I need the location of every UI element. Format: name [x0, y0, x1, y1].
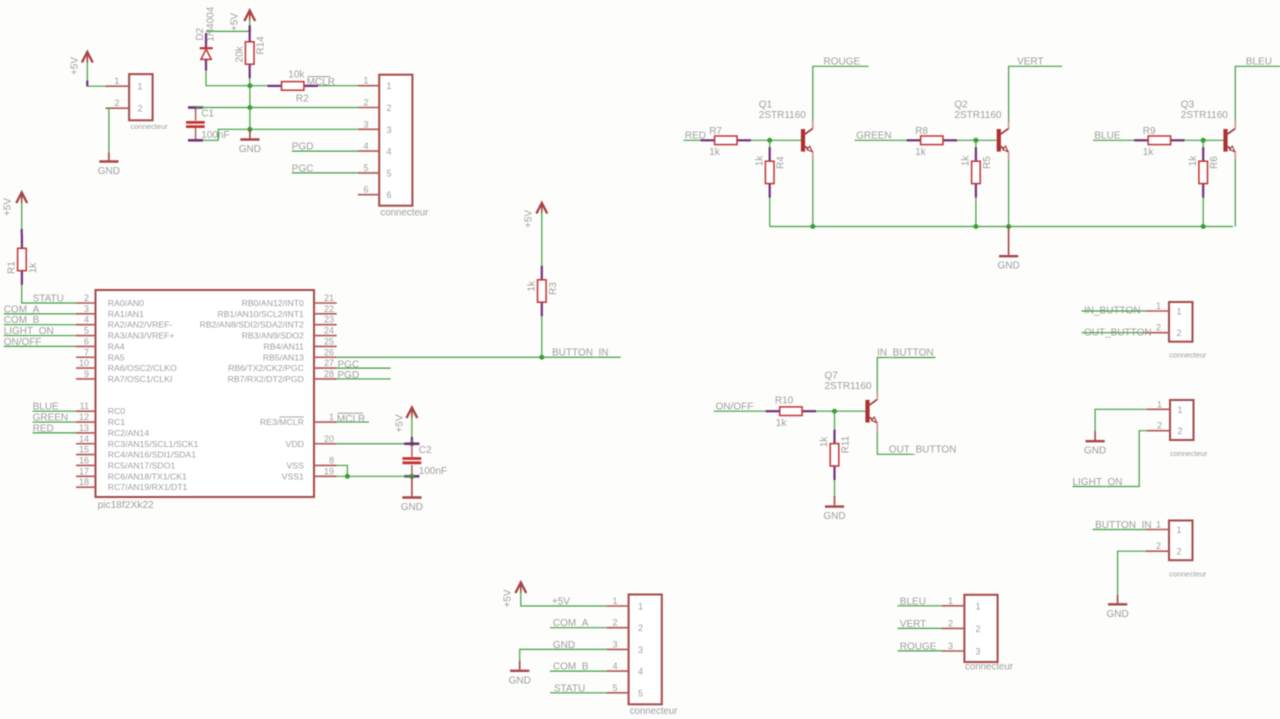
node VERT at SV6 net label: [900, 619, 927, 630]
node MCLR at pin 1 net label: [337, 413, 365, 425]
svg-text:5: 5: [84, 326, 89, 336]
svg-text:+5V: +5V: [395, 414, 406, 432]
junction GND / pin3 net: [247, 127, 252, 132]
svg-text:BLEU: BLEU: [1246, 56, 1272, 67]
resistor R1 (1k): [7, 234, 39, 284]
svg-text:R14: R14: [256, 36, 267, 55]
connector SV-ICSP 6-pin (6-pin "connecteur"): [358, 75, 413, 206]
wire Q2 collector up to net VERT: [1009, 66, 1063, 121]
svg-text:RA4: RA4: [108, 341, 125, 351]
wire net RED into R7: [683, 139, 714, 141]
svg-text:RC5/AN17/SDO1: RC5/AN17/SDO1: [108, 460, 176, 470]
wire net MCLR stub at pin 1: [337, 421, 369, 423]
svg-text:R3: R3: [548, 282, 559, 295]
node RED at R7 net label: [685, 131, 706, 142]
wire R11 column to GND: [834, 411, 836, 496]
U1 left pins RA0-RA7 (pins 2,3,4,5,6,7,10,9): [76, 293, 177, 384]
svg-text:7: 7: [84, 347, 89, 357]
node GREEN at R8 net label: [856, 131, 892, 142]
ground G6 (SV3): [1084, 441, 1106, 457]
node BLUE at R9 net label: [1094, 131, 1120, 142]
wire net COM_B to SV5 pin 4: [550, 670, 607, 672]
svg-text:2: 2: [1177, 547, 1182, 557]
svg-text:C1: C1: [201, 109, 214, 120]
svg-text:+5V: +5V: [552, 596, 570, 607]
svg-text:1: 1: [1157, 399, 1162, 409]
junction Q2 base / R5: [973, 138, 978, 143]
wire net ROUGE to SV6 pin 3: [898, 650, 943, 652]
svg-text:GND: GND: [1106, 609, 1128, 620]
node IN_BUTTON at Q7 net label: [877, 347, 934, 358]
node LIGHT_ON at SV3 net label: [1073, 477, 1123, 488]
svg-text:GND: GND: [401, 502, 423, 513]
wire net IN_BUTTON to SV2 pin 1: [1082, 310, 1147, 312]
svg-text:RB5/AN13: RB5/AN13: [263, 352, 304, 362]
svg-text:RB6/TX2/CK2/PGC: RB6/TX2/CK2/PGC: [228, 363, 304, 373]
svg-text:1: 1: [329, 412, 334, 422]
svg-text:MCLR: MCLR: [337, 414, 365, 425]
node OUT_BUTTON at Q7 net label: [889, 444, 957, 455]
svg-text:RC4/AN16/SDI1/SDA1: RC4/AN16/SDI1/SDA1: [108, 450, 197, 460]
connector SV4 (2-pin "connecteur"): [1146, 521, 1193, 561]
svg-text:R1: R1: [7, 261, 18, 274]
ground G5 (R11): [823, 507, 845, 522]
svg-text:19: 19: [324, 466, 334, 476]
svg-text:R5: R5: [982, 156, 993, 169]
svg-text:GND: GND: [1084, 446, 1106, 457]
svg-text:connecteur: connecteur: [1170, 449, 1208, 458]
svg-text:5: 5: [612, 683, 617, 693]
svg-text:R2: R2: [296, 94, 309, 105]
U1 right pins RB0-RB7 (pins 21-28): [200, 293, 337, 384]
wire R4 column to rail: [769, 140, 771, 226]
junction Q7 base / R11: [832, 409, 837, 414]
svg-text:RC1: RC1: [108, 417, 126, 427]
ground lead G7: [1117, 595, 1119, 603]
wire SV3 pin 1 to GND: [1095, 409, 1147, 431]
svg-text:1k: 1k: [28, 262, 39, 274]
svg-text:2STR1160: 2STR1160: [954, 110, 1002, 121]
ground lead G3: [411, 476, 413, 496]
+5V supply symbol P3 (above R1): [2, 193, 27, 217]
wire net R8 to Q2 base: [957, 139, 997, 141]
svg-text:LIGHT_ON: LIGHT_ON: [1073, 477, 1123, 488]
svg-text:connecteur: connecteur: [630, 706, 679, 717]
node MCLR near R2 net label: [307, 77, 335, 89]
wire Q7 collector to net IN_BUTTON: [877, 358, 935, 393]
svg-text:2STR1160: 2STR1160: [759, 110, 807, 121]
wire net VDD row: [337, 443, 412, 445]
ground lead G8: [519, 661, 521, 670]
resistor R8 (1k): [907, 126, 957, 158]
wire net PGC to connector pin 5: [292, 172, 358, 174]
transistor Q1 (2STR1160) NPN: [759, 100, 813, 160]
svg-text:1: 1: [114, 76, 119, 86]
U1 right pins RE3/MCLR, VDD, VSS, VSS1: [260, 412, 337, 481]
svg-text:Q2: Q2: [954, 100, 968, 111]
svg-text:2: 2: [948, 618, 953, 628]
resistor R3 (1k): [527, 266, 559, 316]
svg-text:1: 1: [976, 601, 981, 611]
node STATU at U1 net label: [33, 294, 64, 305]
junction rail / R6: [1201, 224, 1206, 229]
svg-text:RB3/AN9/SDO2: RB3/AN9/SDO2: [242, 331, 304, 341]
svg-text:R10: R10: [775, 396, 794, 407]
svg-text:2: 2: [1178, 426, 1183, 436]
wire Q3 emitter down to rail: [1234, 160, 1236, 227]
svg-text:16: 16: [79, 455, 89, 465]
wire net R9 to Q3 base: [1185, 139, 1224, 141]
svg-text:2: 2: [1157, 421, 1162, 431]
svg-text:1k: 1k: [1143, 147, 1155, 158]
wire net ON/OFF into R10: [714, 410, 779, 412]
connector SV3 pin numbers: [1157, 399, 1208, 458]
+5V supply symbol P1 (+5V into SV1): [70, 52, 93, 75]
connector SV6 pin numbers: [948, 596, 1014, 673]
wire Q1 emitter down to rail: [812, 160, 814, 227]
svg-text:22: 22: [324, 304, 334, 314]
node LIGHT_ON at U1 net label: [4, 326, 54, 337]
resistor R5 (1k): [961, 147, 993, 197]
wire net PGD to connector pin 4: [292, 150, 358, 152]
svg-text:connecteur: connecteur: [965, 662, 1014, 673]
svg-text:17: 17: [79, 466, 89, 476]
svg-text:3: 3: [363, 119, 368, 129]
node COM_B at U1 net label: [4, 315, 40, 326]
connector SV5 pin numbers: [612, 596, 678, 717]
junction VDD / C2 top: [409, 441, 414, 446]
svg-text:RE3/MCLR: RE3/MCLR: [260, 417, 304, 427]
svg-text:4: 4: [612, 661, 617, 671]
wire net OUT_BUTTON to SV2 pin 2: [1082, 332, 1147, 334]
+5V supply symbol P5 (above C2/VDD): [395, 408, 418, 433]
U1 left pins RC0-RC7 (pins 11-18): [76, 401, 199, 492]
wire net pin3 row (C1 bottom): [203, 129, 358, 140]
svg-text:13: 13: [79, 423, 89, 433]
svg-text:2: 2: [638, 623, 643, 633]
svg-text:RB4/AN11: RB4/AN11: [263, 341, 304, 351]
ground lead G2: [249, 129, 251, 138]
svg-text:RB7/RX2/DT2/PGD: RB7/RX2/DT2/PGD: [228, 374, 304, 384]
svg-text:Q3: Q3: [1181, 100, 1195, 111]
wire Q2 emitter down to rail: [1008, 160, 1010, 227]
resistor R10 (1k): [766, 396, 816, 430]
svg-text:+5V: +5V: [229, 13, 240, 31]
node COM_B at SV5 net label: [553, 662, 589, 673]
svg-text:+5V: +5V: [503, 589, 514, 607]
wire net GREEN into R8: [855, 139, 921, 141]
svg-text:MCLR: MCLR: [307, 77, 335, 88]
wire net BLUE: [33, 410, 76, 412]
wire pin overlap above C2: [411, 437, 413, 444]
svg-text:RC2/AN14: RC2/AN14: [108, 428, 150, 438]
svg-text:14: 14: [79, 434, 89, 444]
ground lead G4: [1008, 227, 1010, 255]
junction C2 bottom / GND: [409, 474, 414, 479]
svg-text:5: 5: [638, 688, 643, 698]
svg-text:8: 8: [329, 455, 334, 465]
svg-text:R6: R6: [1209, 156, 1220, 169]
node GND at SV5 net label: [553, 640, 575, 651]
wire D2 anode-top link to +5V: [206, 30, 250, 32]
node BUTTON_IN at row net label: [552, 347, 609, 358]
diode D2 (1N4004): [195, 6, 217, 70]
transistor Q7 (2STR1160) NPN: [825, 371, 878, 431]
svg-text:connecteur: connecteur: [131, 122, 169, 131]
svg-text:1k: 1k: [961, 155, 972, 167]
svg-text:1: 1: [363, 76, 368, 86]
svg-text:RB2/AN8/SDI2/SDA2/INT2: RB2/AN8/SDI2/SDA2/INT2: [200, 320, 304, 330]
connector SV3 (2-pin "connecteur"): [1147, 400, 1194, 440]
svg-text:RB1/AN10/SCL2/INT1: RB1/AN10/SCL2/INT1: [217, 309, 304, 319]
connector SV2 (2-pin "connecteur"): [1146, 302, 1193, 342]
+5V supply symbol P4 (above R3): [524, 203, 548, 228]
svg-text:1: 1: [1156, 520, 1161, 530]
svg-text:+5V: +5V: [2, 198, 13, 216]
svg-text:3: 3: [638, 645, 643, 655]
junction VSS/VSS1: [345, 474, 350, 479]
svg-text:2STR1160: 2STR1160: [1181, 110, 1229, 121]
svg-text:2: 2: [976, 624, 981, 634]
wire SV4 pin 2 to GND: [1118, 551, 1146, 595]
transistor Q2 (2STR1160) NPN: [954, 100, 1008, 160]
node GREEN at U1 net label: [33, 413, 69, 424]
svg-text:1: 1: [387, 81, 392, 91]
svg-text:3: 3: [387, 125, 392, 135]
svg-text:PGD: PGD: [338, 370, 360, 381]
svg-text:1N4004: 1N4004: [206, 6, 217, 41]
resistor R9 (1k): [1134, 126, 1184, 158]
wire net BUTTON_IN to SV4 pin 1: [1093, 529, 1146, 531]
svg-text:R4: R4: [776, 156, 787, 169]
svg-text:2: 2: [612, 618, 617, 628]
svg-text:20k: 20k: [234, 45, 245, 62]
svg-text:1: 1: [1156, 301, 1161, 311]
svg-text:Q7: Q7: [825, 371, 839, 382]
wire +5V down to MCLR junction (R14 column): [249, 19, 251, 87]
+5V supply symbol P2 (above R14): [229, 11, 255, 32]
svg-text:1: 1: [1177, 307, 1182, 317]
ground G3 (C2): [401, 498, 423, 514]
svg-text:5: 5: [363, 163, 368, 173]
wire net COM_A: [4, 313, 76, 315]
svg-text:1: 1: [1178, 405, 1183, 415]
svg-text:3: 3: [948, 641, 953, 651]
transistor Q3 (2STR1160) NPN: [1181, 100, 1236, 160]
svg-text:10k: 10k: [288, 70, 305, 81]
svg-text:1: 1: [612, 596, 617, 606]
svg-text:RA1/AN1: RA1/AN1: [108, 309, 144, 319]
wire R1 column down to STATU pin 2: [22, 201, 76, 303]
svg-text:RA2/AN2/VREF-: RA2/AN2/VREF-: [108, 320, 173, 330]
junction Q1 base / R4: [767, 138, 772, 143]
svg-text:1k: 1k: [819, 436, 830, 448]
wire net pin2 row (C1 top): [196, 107, 358, 109]
ground lead G5: [834, 496, 836, 506]
+5V supply symbol P6 (SV5): [503, 583, 527, 608]
wire net BUTTON_IN long row: [337, 356, 621, 358]
wire net R7 to Q1 base: [751, 139, 801, 141]
svg-text:2: 2: [138, 104, 143, 114]
svg-text:C2: C2: [419, 445, 432, 456]
svg-text:20: 20: [324, 434, 334, 444]
node BLUE at U1 net label: [33, 402, 59, 413]
svg-text:2: 2: [84, 293, 89, 303]
svg-text:1k: 1k: [527, 280, 538, 292]
wire SV3 pin 2 to net LIGHT_ON: [1073, 431, 1148, 487]
node IN_BUTTON at SV2 net label: [1084, 306, 1141, 317]
svg-text:3: 3: [84, 304, 89, 314]
svg-text:27: 27: [324, 358, 334, 368]
junction C1 top / pin2 net: [247, 105, 252, 110]
svg-text:3: 3: [976, 647, 981, 657]
node ON/OFF at U1 net label: [4, 337, 42, 348]
svg-text:PGC: PGC: [338, 359, 360, 370]
svg-text:9: 9: [84, 369, 89, 379]
ground G2 (C1): [239, 140, 261, 156]
wire net MCLR row (D2 to connector pin1): [206, 71, 358, 86]
svg-text:1: 1: [638, 602, 643, 612]
svg-text:15: 15: [79, 445, 89, 455]
svg-text:D2: D2: [195, 27, 206, 40]
svg-text:18: 18: [79, 477, 89, 487]
ground G1 (SV1): [98, 162, 120, 178]
svg-text:6: 6: [387, 190, 392, 200]
node PGD top net label: [292, 142, 314, 153]
wire net STATU to SV5 pin 5: [550, 692, 607, 694]
connector SV1 (2-pin "connecteur"): [106, 74, 153, 120]
junction rail / Q2 emitter / GND tap: [1006, 224, 1011, 229]
wire net VERT to SV6 pin 2: [898, 627, 943, 629]
wire net LIGHT_ON: [4, 335, 76, 337]
svg-text:RC3/AN15/SCL1/SCK1: RC3/AN15/SCL1/SCK1: [108, 439, 199, 449]
svg-text:6: 6: [363, 185, 368, 195]
node ROUGE at SV6 net label: [900, 642, 937, 653]
svg-text:1k: 1k: [754, 155, 765, 167]
svg-text:2: 2: [363, 98, 368, 108]
svg-text:+5V: +5V: [524, 210, 535, 228]
wire +5V to SV5 pin 1: [521, 591, 607, 606]
svg-text:25: 25: [324, 336, 334, 346]
svg-text:+5V: +5V: [70, 57, 81, 75]
svg-text:pic18f2Xk22: pic18f2Xk22: [98, 500, 154, 511]
node OUT_BUTTON at SV2 net label: [1084, 327, 1152, 338]
wire net GREEN: [33, 421, 76, 423]
wire Q7 emitter to net OUT_BUTTON: [877, 431, 913, 455]
junction MCLR/R14: [247, 83, 252, 88]
svg-text:RA5: RA5: [108, 352, 125, 362]
connector SV-ICSP 6-pin pin numbers: [363, 76, 429, 219]
svg-text:GND: GND: [997, 261, 1019, 272]
svg-text:24: 24: [324, 326, 334, 336]
node RED at U1 net label: [33, 423, 54, 434]
wire net COM_B: [4, 324, 76, 326]
svg-text:GND: GND: [509, 675, 531, 686]
svg-text:connecteur: connecteur: [1169, 569, 1207, 578]
svg-text:28: 28: [324, 369, 334, 379]
node ROUGE at Q1 net label: [824, 56, 861, 67]
wire net R10 to Q7 base: [816, 410, 865, 412]
wire SV5 pin 3 to GND: [520, 649, 607, 661]
svg-text:100nF: 100nF: [419, 466, 447, 477]
wire vertical MCLR-to-GND column: [249, 86, 251, 130]
wire emitter/ground rail: [770, 226, 1233, 228]
svg-text:2: 2: [114, 98, 119, 108]
svg-text:GND: GND: [239, 144, 261, 155]
wire R5 column to rail: [975, 140, 977, 226]
wire SV1 pin 2 to GND: [106, 108, 109, 152]
resistor R7 (1k): [701, 126, 751, 158]
wire net PGC stub at pin 27: [337, 367, 391, 369]
svg-text:12: 12: [79, 412, 89, 422]
wire Q3 collector up to net BLEU: [1235, 66, 1280, 121]
svg-text:R11: R11: [841, 435, 852, 453]
svg-text:R7: R7: [709, 126, 722, 137]
ground G7 (SV4): [1106, 604, 1128, 620]
wire net VSS1 row to C2 bottom: [337, 475, 412, 477]
svg-text:RB0/AN12/INT0: RB0/AN12/INT0: [242, 298, 304, 308]
capacitor C1 (100nF): [186, 108, 230, 141]
ground lead G6: [1094, 431, 1096, 440]
svg-text:11: 11: [80, 401, 89, 411]
resistor R2 (10k): [268, 70, 318, 105]
connector SV4 pin numbers: [1156, 520, 1207, 579]
svg-text:1: 1: [138, 82, 143, 92]
svg-text:23: 23: [324, 315, 334, 325]
svg-text:1k: 1k: [1188, 155, 1199, 167]
svg-text:IN_BUTTON: IN_BUTTON: [877, 347, 934, 358]
connector SV5 (5-pin "connecteur"): [607, 595, 662, 705]
junction rail / R5: [973, 224, 978, 229]
svg-text:RC6/AN18/TX1/CK1: RC6/AN18/TX1/CK1: [108, 471, 187, 481]
svg-text:2: 2: [1156, 541, 1161, 551]
node STATU at SV5 net label: [554, 683, 585, 694]
svg-text:10: 10: [79, 358, 89, 368]
svg-text:R9: R9: [1143, 126, 1156, 137]
svg-text:Q1: Q1: [759, 100, 773, 111]
node ON/OFF at R10 net label: [716, 402, 754, 413]
wire net BLUE into R9: [1093, 139, 1148, 141]
ground G4 (rail): [997, 256, 1019, 272]
svg-text:3: 3: [612, 639, 617, 649]
svg-text:BUTTON_IN: BUTTON_IN: [552, 347, 609, 358]
svg-text:RC7/AN19/RX1/DT1: RC7/AN19/RX1/DT1: [108, 482, 188, 492]
resistor R4 (1k): [754, 147, 786, 197]
svg-text:4: 4: [638, 667, 643, 677]
connector SV6 (3-pin "connecteur"): [942, 595, 998, 662]
svg-text:100nF: 100nF: [201, 130, 229, 141]
svg-text:VSS: VSS: [287, 460, 305, 470]
wire +5V to SV1 pin 1: [87, 63, 107, 87]
node BUTTON_IN at SV4 net label: [1095, 520, 1152, 531]
wire net ON/OFF: [4, 345, 76, 347]
svg-text:1k: 1k: [709, 147, 721, 158]
connector SV2 pin numbers: [1156, 301, 1207, 359]
capacitor C2 (100nF): [402, 444, 447, 477]
svg-text:5: 5: [387, 168, 392, 178]
svg-text:4: 4: [84, 315, 89, 325]
svg-text:4: 4: [387, 147, 392, 157]
resistor R14 (20k): [234, 28, 266, 78]
svg-text:R8: R8: [915, 126, 928, 137]
svg-text:VDD: VDD: [286, 439, 304, 449]
junction Q3 base / R6: [1201, 138, 1206, 143]
node COM_A at U1 net label: [4, 304, 40, 315]
wire R6 column to rail: [1202, 140, 1204, 226]
svg-text:RC0: RC0: [108, 406, 126, 416]
svg-text:OUT_BUTTON: OUT_BUTTON: [889, 444, 957, 455]
op-amp/IC U1 pic18f2Xk22 body: [96, 290, 315, 511]
